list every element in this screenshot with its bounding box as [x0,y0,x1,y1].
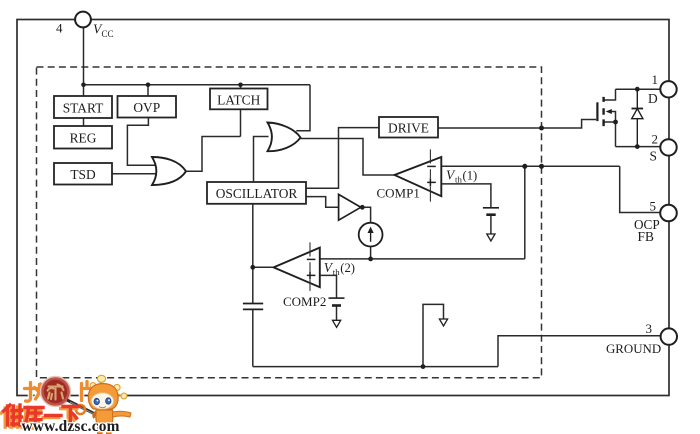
svg-text:5: 5 [650,199,657,214]
block LATCH [210,89,268,110]
transistor Q1 (power MOSFET) [597,97,611,126]
wire OSCILLATOR bottom to capacitor C1 top [252,204,254,304]
or-gate G1 (to COMP1 node) [268,123,301,152]
svg-text:(1): (1) [463,169,478,183]
wire COMP2 minus line to vertical riser [320,258,525,260]
wire LATCH top to rail [240,85,242,89]
svg-text:OVP: OVP [133,100,160,115]
svg-text:FB: FB [638,229,654,244]
capacitor C1 [243,304,263,310]
wire MOSFET drain rail to pin 1 [616,88,661,90]
wire COMP2 plus to Vth2 battery [320,275,337,298]
svg-text:CC: CC [102,29,114,39]
pin 1 D [648,72,677,106]
wire OSCILLATOR out1 to DRIVE input [306,128,379,189]
block REG [54,126,112,149]
svg-text:3: 3 [646,321,653,336]
op-amp COMP2 [274,242,327,308]
svg-text:www.dzsc.com: www.dzsc.com [22,418,120,434]
wire COMP2 output to node [253,266,274,268]
block OVP [118,96,177,118]
wire internal Vcc top rail [84,84,311,86]
wire OSCILLATOR out2 to buffer input [306,197,339,208]
wire OR2 output to LATCH bottom [186,137,241,172]
wire OR1 output to COMP1 output node [300,139,395,176]
pin 5 OCP/FB [634,199,677,245]
svg-text:S: S [650,149,657,164]
svg-text:th: th [333,267,340,277]
svg-text:4: 4 [56,21,63,36]
mascot doll [67,375,131,433]
wire TSD to OR2 input [112,173,157,175]
wire OVP to OR2 input [127,118,155,166]
wire COMP1 minus input to FB net [441,165,619,167]
wire OVP top to rail [147,85,149,96]
svg-text:DRIVE: DRIVE [388,121,429,136]
wire riser to COMP1 minus line [524,166,526,259]
block TSD [54,163,112,185]
block DRIVE [379,117,438,138]
svg-text:(2): (2) [340,261,355,275]
wire FB net down to pin 5 [620,166,661,212]
wire Vcc pin4 to START [83,27,85,96]
svg-text:LATCH: LATCH [217,93,260,108]
svg-text:START: START [63,101,104,116]
label Vth(2) [324,260,355,277]
svg-text:2: 2 [652,132,659,147]
wire capacitor C1 bottom to ground rail [252,310,254,367]
svg-text:TSD: TSD [70,167,96,182]
block START [54,96,112,118]
wire START to REG [83,118,85,126]
pin 3 GROUND [606,321,677,356]
label Vth(1) [446,168,477,185]
wire ground rail step to pin 3 [498,336,661,367]
current source I1 [359,223,383,247]
wire drain stub [605,89,616,100]
wire internal ground rail [253,366,498,368]
wire Vth2 battery to ground arrow [336,306,338,321]
wire COMP1 plus to Vth1 battery [441,184,491,208]
svg-text:COMP2: COMP2 [283,294,326,309]
svg-text:GROUND: GROUND [606,342,661,356]
svg-text:D: D [648,91,658,106]
block OSCILLATOR [207,182,306,204]
wire current source to COMP1/COMP2 sense line [370,247,372,259]
wire DRIVE output to MOSFET gate [438,120,596,129]
ground arrow (Vth1) [487,234,495,241]
ground arrow (Vth2) [333,320,341,327]
wire ground branch to arrow [423,304,444,366]
battery Vth1 [483,208,499,215]
ground arrow (inner) [439,319,447,326]
wire MOSFET source rail to pin 2 [616,146,661,148]
wire source stub [605,122,616,147]
watermark logo dzsc.com [25,377,92,406]
or-gate G2 (TSD/OVP) [152,157,186,185]
wire buffer output to current source [361,207,371,222]
pin 4 Vcc [56,12,114,39]
wire LATCH bottom [240,109,242,136]
watermark red text [1,407,77,428]
op-amp COMP1 [377,149,442,201]
wire body stub [612,112,616,123]
wire rail drop to OR1 [296,85,310,131]
internal block dashed boundary [37,67,542,378]
svg-text:th: th [455,175,462,185]
svg-text:OSCILLATOR: OSCILLATOR [216,186,298,201]
wire Vth1 battery to ground arrow [490,215,492,234]
battery Vth2 [329,298,345,305]
svg-text:COMP1: COMP1 [377,186,420,201]
wire OSCILLATOR top to OR1 input [254,137,269,183]
buffer U2 [339,194,361,220]
svg-text:1: 1 [652,72,659,87]
diode D1 (body diode) [632,89,644,146]
svg-text:REG: REG [70,131,97,146]
pin 2 S [650,132,677,164]
